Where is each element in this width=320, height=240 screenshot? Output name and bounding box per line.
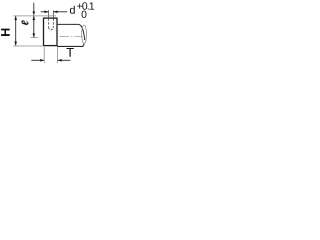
label T xyxy=(66,48,73,57)
tolerance +0.1 xyxy=(77,2,94,9)
centerline xyxy=(60,35,83,37)
label d xyxy=(70,6,75,14)
dimension d right arrow xyxy=(53,11,57,14)
dimension H bottom arrow xyxy=(14,42,17,46)
label H (rotated) xyxy=(1,29,10,36)
dimension H line xyxy=(15,16,17,45)
dimension l bottom arrow (down) xyxy=(33,33,36,37)
extension line hole right up xyxy=(52,10,54,17)
pin tip ellipse xyxy=(82,25,87,43)
dimension l top inner arrow (up) xyxy=(33,16,36,20)
pin bottom edge xyxy=(57,44,84,47)
hidden hole left edge xyxy=(48,18,50,27)
extension line hole left up xyxy=(48,10,50,17)
dimension l outside stem above xyxy=(33,3,35,12)
dimension H top arrow xyxy=(14,16,17,20)
bottom dim right extension line xyxy=(57,47,59,63)
bottom dimension left arrow xyxy=(40,59,44,62)
top face extension line xyxy=(13,15,56,17)
pin top edge xyxy=(57,24,85,40)
dimension l line xyxy=(33,16,35,38)
hidden hole right edge xyxy=(52,18,54,27)
bottom-left extension line of H xyxy=(13,45,43,47)
label l (script ell, rotated) xyxy=(21,20,28,25)
tolerance 0 xyxy=(82,11,87,18)
dimension l outside arrow (down) xyxy=(33,12,36,16)
bottom dimension right arrow xyxy=(58,59,62,62)
bottom dim left extension line xyxy=(43,47,45,63)
bottom dimension left tail xyxy=(31,59,44,61)
extension line for l bottom xyxy=(31,37,38,39)
hidden hole bottom arc xyxy=(49,27,54,29)
body rectangle (cylinder side view) xyxy=(44,18,58,45)
dimension d left arrow xyxy=(45,11,49,14)
bottom dimension right tail xyxy=(58,59,71,61)
dimension d right tail xyxy=(54,11,68,13)
dimension d left tail xyxy=(41,11,49,13)
